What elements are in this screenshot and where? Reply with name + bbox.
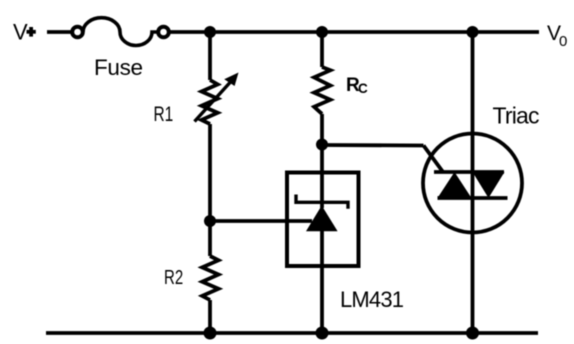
- node A junction dot (top rail / R1): [204, 26, 216, 38]
- R2 label: [164, 266, 183, 289]
- svg-text:Triac: Triac: [493, 103, 540, 129]
- Rc label: [346, 75, 368, 96]
- node Vo label: [547, 22, 567, 50]
- node V+ label: [13, 20, 28, 45]
- LM431 cathode bar: [296, 195, 348, 209]
- node D junction dot (R1/R2/ref): [204, 215, 216, 227]
- wire gate diagonal: [424, 146, 444, 173]
- wire fuse to Vo rail: [170, 30, 540, 34]
- op-amp U1 LM431 box: [287, 173, 359, 267]
- wire LM431 cathode: [320, 145, 324, 209]
- wire top rail to R1: [208, 32, 212, 80]
- triac bottom bar: [438, 196, 508, 200]
- svg-text:R1: R1: [154, 102, 174, 126]
- triac right triangle: [473, 172, 505, 198]
- svg-text:Fuse: Fuse: [94, 55, 143, 80]
- wire Rc to node E: [320, 114, 324, 145]
- wire top rail through triac to bottom rail: [471, 32, 475, 333]
- svg-text:C: C: [358, 81, 368, 96]
- wire node D to LM431 ref: [210, 219, 312, 223]
- wire node D to R2: [208, 221, 212, 256]
- R1 wiper arrow: [195, 73, 239, 122]
- node G junction dot (LM431 / bottom rail): [316, 327, 329, 340]
- svg-text:V: V: [13, 20, 28, 45]
- node C junction dot (top rail / triac): [467, 26, 479, 38]
- wire LM431 anode to bottom rail: [320, 229, 324, 333]
- LM431 label: [340, 287, 404, 312]
- node F junction dot (R2 / bottom rail): [204, 327, 217, 340]
- fuse label: [94, 55, 143, 80]
- R1 label: [154, 102, 174, 126]
- svg-text:R2: R2: [164, 266, 183, 289]
- wire R1 to node D: [208, 124, 212, 221]
- node B junction dot (top rail / Rc): [316, 26, 328, 38]
- triac left triangle: [438, 172, 472, 198]
- svg-text:LM431: LM431: [340, 287, 404, 312]
- wire R2 to bottom rail: [208, 300, 212, 333]
- wire gate horizontal: [322, 143, 424, 147]
- svg-text:0: 0: [559, 33, 567, 50]
- wire bottom rail: [46, 331, 538, 335]
- resistor R1 (variable): [202, 80, 218, 124]
- triac top bar: [434, 170, 504, 174]
- Triac label: [493, 103, 540, 129]
- wire V+ to fuse: [47, 30, 71, 34]
- triac Q1 circle: [423, 134, 522, 233]
- fuse F1: [72, 18, 169, 46]
- node E junction dot (Rc / gate / LM431): [316, 139, 328, 151]
- LM431 diode triangle: [306, 206, 338, 232]
- node H junction dot (triac / bottom rail): [466, 327, 479, 340]
- resistor R2: [202, 256, 218, 300]
- wire top rail to Rc: [320, 32, 324, 67]
- resistor Rc: [314, 67, 330, 114]
